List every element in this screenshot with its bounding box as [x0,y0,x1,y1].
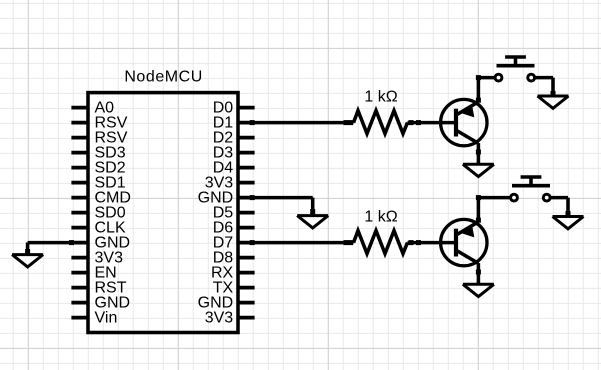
wire D7 pin to resistor R2 [250,240,354,245]
U1 left pin 12 stub (EN) [71,271,89,275]
pushbutton SW1 [495,57,534,81]
U1 right pin 15 stub (3V3) [237,316,255,320]
wire SW2 to ground [550,198,571,216]
resistor R1 1 kΩ body [354,111,408,134]
svg-text:3V3: 3V3 [205,309,234,326]
IC U1 NodeMCU body [88,93,238,333]
resistor R2 1 kΩ body [354,231,408,254]
ground GND1 (left) [12,243,43,267]
wire GND pin to ground (mid) [250,195,316,214]
ground GND2 (below GND pin) [297,198,328,228]
U1 left pin 15 stub (Vin) [71,316,89,320]
U1 left pin 13 stub (RST) [71,286,89,290]
U1 right pin 9 stub (D6) [237,226,255,230]
ground GND6 (Q2 collector) [463,272,494,297]
U1 right pin 10 stub (D7) [237,241,255,245]
svg-text:NodeMCU: NodeMCU [124,69,203,86]
ground GND3 (SW1) [538,78,569,109]
svg-text:1 kΩ: 1 kΩ [364,209,397,226]
U1 right pin 4 stub (D3) [237,151,255,155]
wire resistor R1 to transistor base [408,120,457,125]
U1 right pin 5 stub (D4) [237,166,255,170]
U1 right pin 11 stub (D8) [237,256,255,260]
pushbutton SW2 [511,177,550,201]
U1 right pin 8 stub (D5) [237,211,255,215]
U1 right pin 3 stub (D2) [237,136,255,140]
ground GND4 (Q1 collector) [463,152,494,177]
wire resistor R2 to transistor base [408,240,457,245]
U1 left pin 6 stub (SD1) [71,181,89,185]
wire left GND pin to ground [25,240,74,254]
U1 left pin 11 stub (3V3) [71,256,89,260]
U1 left pin 5 stub (SD2) [71,166,89,170]
U1 left pin 2 stub (RSV) [71,121,89,125]
wire Q1 emitter up to switch SW1 [476,75,495,103]
wire Q2 emitter up to switch SW2 [476,195,511,223]
U1 left pin 1 stub (A0) [71,106,89,110]
wire D1 pin to resistor R1 [250,120,354,125]
U1 right pin 13 stub (TX) [237,286,255,290]
svg-text:1 kΩ: 1 kΩ [364,89,397,106]
wire SW1 to ground [534,78,555,96]
U1 right pin 7 stub (GND) [237,196,255,200]
U1 left pin 10 stub (GND) [71,241,89,245]
U1 right pin 14 stub (GND) [237,301,255,305]
svg-text:Vin: Vin [95,309,118,326]
U1 right pin 6 stub (3V3) [237,181,255,185]
U1 left pin 14 stub (GND) [71,301,89,305]
U1 left pin 3 stub (RSV) [71,136,89,140]
U1 left pin 9 stub (CLK) [71,226,89,230]
ground GND5 (SW2) [553,198,584,229]
PNP transistor Q2 [441,219,487,265]
PNP transistor Q1 [441,99,487,145]
wire Q1 collector down to ground [476,143,481,154]
U1 right pin 12 stub (RX) [237,271,255,275]
wire Q2 collector down to ground [476,263,481,274]
U1 left pin 8 stub (SD0) [71,211,89,215]
U1 right pin 2 stub (D1) [237,121,255,125]
U1 left pin 7 stub (CMD) [71,196,89,200]
U1 right pin 1 stub (D0) [237,106,255,110]
U1 left pin 4 stub (SD3) [71,151,89,155]
